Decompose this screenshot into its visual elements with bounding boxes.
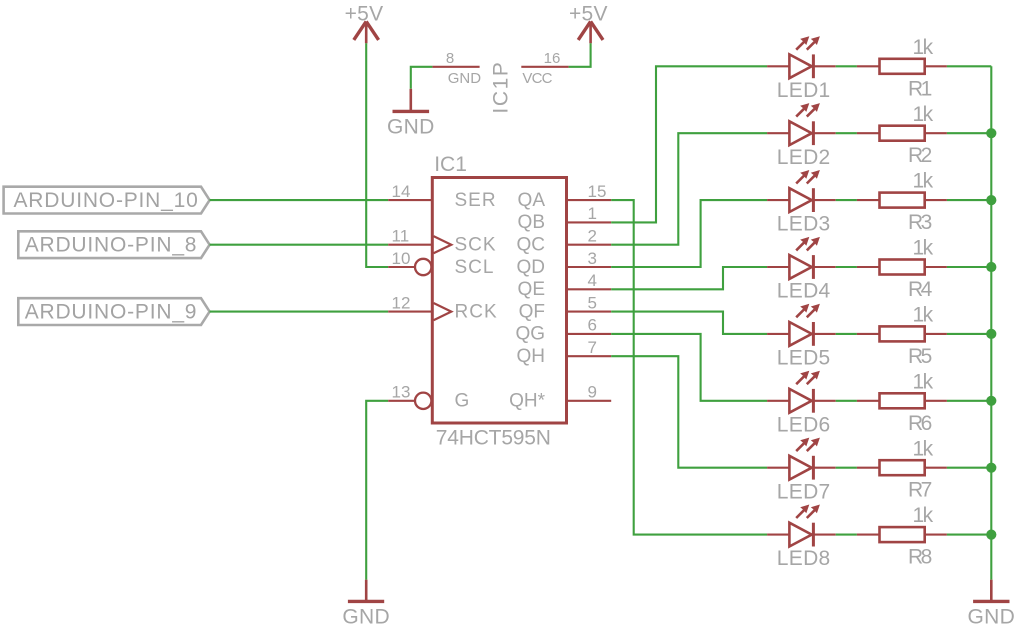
svg-text:10: 10	[392, 249, 411, 268]
svg-text:3: 3	[588, 249, 597, 268]
LED LED3	[767, 170, 836, 212]
svg-text:QG: QG	[515, 324, 545, 345]
svg-text:11: 11	[392, 227, 410, 246]
svg-text:R6: R6	[908, 412, 932, 435]
pin 4 QE	[518, 271, 612, 300]
resistor R3	[857, 193, 947, 208]
svg-text:1k: 1k	[913, 170, 934, 193]
svg-text:8: 8	[446, 50, 454, 67]
resistor R4	[857, 260, 947, 275]
wire ARDUINO-PIN_10 to SER	[210, 199, 389, 201]
wire LED3 to R3	[836, 199, 857, 201]
resistor R6	[857, 393, 947, 408]
wire LED2 to R2	[836, 132, 857, 134]
svg-text:VCC: VCC	[522, 70, 552, 87]
svg-text:GND: GND	[448, 70, 482, 87]
svg-text:13: 13	[392, 383, 411, 402]
LED LED4	[767, 237, 836, 279]
svg-text:QH*: QH*	[509, 391, 546, 412]
wire R6 to GND rail	[947, 400, 991, 402]
wire LED1 to R1	[836, 65, 857, 67]
svg-text:1k: 1k	[913, 304, 934, 327]
svg-text:LED3: LED3	[777, 213, 831, 236]
pin 12 RCK	[388, 293, 497, 322]
svg-text:12: 12	[392, 293, 411, 312]
svg-text:1k: 1k	[913, 504, 934, 527]
resistor R2	[857, 126, 947, 141]
svg-text:74HCT595N: 74HCT595N	[436, 427, 551, 450]
svg-text:SCK: SCK	[455, 235, 497, 256]
svg-text:LED8: LED8	[777, 547, 831, 570]
junction at R2/rail	[986, 128, 996, 138]
svg-text:LED1: LED1	[777, 79, 831, 102]
wire LED6 to R6	[836, 400, 857, 402]
ground GND symbol (bottom left)	[348, 580, 384, 602]
ground GND symbol (top)	[393, 89, 430, 112]
IC IC1 74HCT595N body	[432, 178, 566, 424]
junction at R7/rail	[986, 463, 996, 473]
svg-text:R7: R7	[908, 479, 932, 502]
svg-text:4: 4	[588, 271, 597, 290]
net label flag ARDUINO-PIN_8	[18, 231, 209, 258]
wire LED5 to R5	[836, 333, 857, 335]
junction at R3/rail	[986, 195, 996, 205]
svg-text:ARDUINO-PIN_9: ARDUINO-PIN_9	[25, 300, 198, 323]
LED LED1	[767, 36, 836, 78]
pin 14 SER	[388, 182, 496, 211]
svg-text:R4: R4	[908, 278, 933, 301]
svg-text:1k: 1k	[913, 103, 934, 126]
power part IC1P pin 8 GND	[432, 50, 481, 87]
wire QB to LED1	[611, 66, 767, 222]
wire GND rail (right)	[990, 66, 992, 579]
junction at R5/rail	[986, 329, 996, 339]
wire G pin 13 to GND	[366, 401, 388, 580]
svg-text:IC1P: IC1P	[490, 61, 513, 114]
svg-text:LED5: LED5	[777, 347, 831, 370]
wire R4 to GND rail	[947, 266, 991, 268]
wire R3 to GND rail	[947, 199, 991, 201]
pin 15 QA	[518, 182, 612, 211]
svg-text:GND: GND	[342, 606, 390, 629]
wire +5V to SCL pin 10	[366, 43, 388, 267]
junction at R4/rail	[986, 262, 996, 272]
svg-text:QH: QH	[517, 346, 546, 367]
svg-text:1k: 1k	[913, 36, 934, 59]
svg-text:1k: 1k	[913, 370, 934, 393]
wire QF to LED5	[611, 312, 767, 334]
wire R1 to GND rail	[947, 65, 991, 67]
wire LED4 to R4	[836, 266, 857, 268]
svg-text:1: 1	[588, 204, 597, 223]
svg-text:LED4: LED4	[777, 280, 831, 303]
LED LED5	[767, 304, 836, 346]
wire LED7 to R7	[836, 467, 857, 469]
wire LED8 to R8	[836, 534, 857, 536]
wire IC1P pin 8 to GND	[411, 67, 433, 89]
resistor R7	[857, 460, 947, 475]
svg-text:2: 2	[588, 227, 597, 246]
svg-text:LED7: LED7	[777, 480, 831, 503]
svg-text:R1: R1	[908, 77, 932, 100]
svg-text:QC: QC	[517, 235, 546, 256]
svg-text:6: 6	[588, 316, 597, 335]
svg-text:G: G	[455, 391, 470, 412]
svg-text:9: 9	[588, 383, 597, 402]
pin 2 QC	[517, 227, 612, 256]
wire R5 to GND rail	[947, 333, 991, 335]
svg-text:+5V: +5V	[569, 3, 608, 26]
wire R2 to GND rail	[947, 132, 991, 134]
resistor R5	[857, 326, 947, 341]
svg-text:SER: SER	[455, 190, 497, 211]
svg-text:LED6: LED6	[777, 413, 831, 436]
wire ARDUINO-PIN_8 to SCK	[210, 244, 389, 246]
pin 1 QB	[518, 204, 612, 233]
svg-text:R5: R5	[908, 345, 932, 368]
svg-text:QB: QB	[518, 212, 545, 233]
wire QH to LED7	[611, 356, 767, 468]
svg-text:14: 14	[392, 182, 411, 201]
resistor R1	[857, 59, 947, 74]
wire R8 to GND rail	[947, 534, 991, 536]
net label flag ARDUINO-PIN_9	[18, 298, 209, 325]
pin 6 QG	[515, 316, 611, 345]
wire IC1P pin 16 to +5V	[569, 43, 591, 67]
wire R7 to GND rail	[947, 467, 991, 469]
svg-text:QD: QD	[517, 257, 546, 278]
svg-text:GND: GND	[387, 116, 435, 139]
pin 9 QH*	[509, 383, 611, 412]
resistor R8	[857, 527, 947, 542]
svg-text:5: 5	[588, 293, 597, 312]
junction at R8/rail	[986, 530, 996, 540]
svg-text:16: 16	[544, 50, 561, 67]
supply +5V symbol (right)	[578, 21, 603, 43]
svg-text:GND: GND	[968, 606, 1016, 629]
pin 13 G	[388, 383, 469, 412]
pin 3 QD	[517, 249, 612, 278]
junction at R6/rail	[986, 396, 996, 406]
wire QD to LED3	[611, 200, 767, 267]
pin 7 QH	[517, 338, 612, 367]
pin 10 SCL	[388, 249, 494, 278]
svg-text:QA: QA	[518, 190, 546, 211]
svg-text:1k: 1k	[913, 437, 934, 460]
svg-text:R3: R3	[908, 211, 932, 234]
wire QA to LED8	[611, 200, 767, 534]
svg-text:QE: QE	[518, 279, 545, 300]
pin 11 SCK	[388, 227, 496, 256]
svg-text:R8: R8	[908, 546, 932, 569]
net label flag ARDUINO-PIN_10	[4, 187, 210, 214]
wire QC to LED2	[611, 133, 767, 245]
LED LED2	[767, 103, 836, 145]
wire ARDUINO-PIN_9 to RCK	[210, 311, 389, 313]
svg-text:RCK: RCK	[455, 301, 498, 322]
LED LED6	[767, 371, 836, 413]
supply +5V symbol (left)	[354, 21, 379, 43]
svg-text:QF: QF	[519, 301, 545, 322]
power part IC1P pin 16 VCC	[521, 50, 568, 87]
svg-text:ARDUINO-PIN_8: ARDUINO-PIN_8	[25, 233, 198, 256]
svg-text:R2: R2	[908, 144, 932, 167]
svg-text:IC1: IC1	[434, 153, 467, 176]
svg-text:15: 15	[588, 182, 607, 201]
LED LED8	[767, 505, 836, 547]
svg-text:SCL: SCL	[455, 257, 495, 278]
LED LED7	[767, 438, 836, 480]
wire QG to LED6	[611, 334, 767, 401]
pin 5 QF	[519, 293, 612, 322]
svg-text:+5V: +5V	[345, 3, 384, 26]
svg-text:LED2: LED2	[777, 146, 831, 169]
svg-text:ARDUINO-PIN_10: ARDUINO-PIN_10	[14, 189, 199, 212]
svg-text:7: 7	[588, 338, 597, 357]
svg-text:1k: 1k	[913, 237, 934, 260]
wire QE to LED4	[611, 267, 767, 289]
ground GND symbol (bottom right)	[973, 580, 1009, 602]
